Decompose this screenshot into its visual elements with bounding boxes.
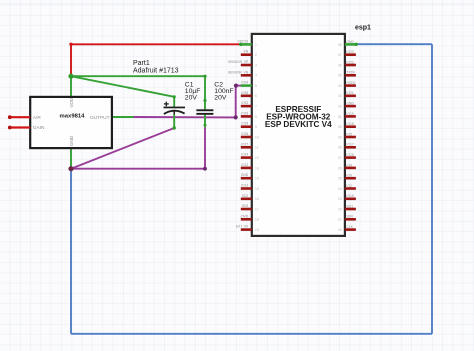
wire green C2 top lead vertical: [204, 76, 206, 109]
svg-text:27: 27: [338, 156, 342, 160]
svg-text:6: 6: [255, 94, 257, 98]
pin left 19 EXT_5V: [236, 225, 259, 232]
svg-text:33: 33: [338, 94, 342, 98]
svg-text:SD2: SD2: [242, 194, 249, 198]
op-amp Part1 max9814 module body: [30, 97, 112, 148]
svg-text:SENSOR_VP: SENSOR_VP: [228, 60, 249, 64]
wire green C1 top lead: [173, 97, 175, 107]
svg-text:23: 23: [338, 197, 342, 201]
svg-text:IO14: IO14: [241, 153, 248, 157]
svg-text:19: 19: [255, 228, 259, 232]
pin right 24 IO2: [338, 184, 356, 191]
pin left 16 SD2: [241, 194, 259, 201]
svg-text:IO34: IO34: [241, 81, 248, 85]
pin right 34 RXD0: [338, 81, 356, 88]
pin GAIN stub: [10, 126, 30, 128]
svg-text:20: 20: [338, 228, 342, 232]
pin A/R stub: [10, 116, 30, 118]
wire purple C2 bottom vertical: [204, 127, 206, 168]
wire blue GND vertical right: [431, 44, 433, 334]
svg-text:GND: GND: [69, 135, 75, 146]
wire green C2 bottom lead: [204, 115, 206, 128]
pin right 22 SD1: [338, 204, 356, 211]
pin left 18 CMD: [241, 214, 259, 221]
capacitor C1: [164, 102, 186, 115]
svg-text:TXD0: TXD0: [346, 71, 355, 75]
pin right 38 GND: [338, 40, 356, 47]
wire green OUTPUT stub: [112, 116, 134, 118]
svg-text:IO16: IO16: [346, 153, 353, 157]
wire purple GND horizontal to below C2: [71, 168, 205, 170]
wire green C1 bottom lead: [173, 115, 175, 128]
pin left 17 SD3: [241, 204, 259, 211]
wire red VDD vertical: [70, 44, 72, 76]
svg-text:18: 18: [255, 218, 259, 222]
svg-text:CLK: CLK: [346, 225, 353, 229]
svg-text:max9814: max9814: [60, 114, 86, 120]
svg-text:VDD: VDD: [69, 97, 75, 108]
wire purple OUTPUT horizontal: [134, 116, 236, 118]
pin left 14 GND: [241, 173, 259, 180]
svg-text:17: 17: [255, 207, 259, 211]
wire blue GND vertical left: [70, 169, 72, 334]
wire purple diagonal C1 bottom to GND node: [71, 128, 174, 169]
svg-text:3: 3: [255, 63, 257, 67]
svg-text:IO19: IO19: [346, 112, 353, 116]
wire purple into IO34 pin: [236, 85, 242, 87]
svg-text:SD1: SD1: [346, 204, 353, 208]
svg-text:IO4: IO4: [346, 163, 352, 167]
svg-text:12: 12: [255, 156, 259, 160]
svg-text:IO12: IO12: [241, 163, 248, 167]
svg-text:38: 38: [338, 43, 342, 47]
wire purple OUTPUT vertical to IO34: [235, 86, 237, 118]
svg-text:IO0: IO0: [346, 174, 352, 178]
svg-text:16: 16: [255, 197, 259, 201]
pin left 3 SENSOR_VP: [228, 60, 257, 67]
node green bendpoint at C2 top: [203, 75, 206, 78]
svg-text:31: 31: [338, 115, 342, 119]
svg-text:OUTPUT: OUTPUT: [90, 115, 110, 121]
svg-text:7: 7: [255, 105, 257, 109]
svg-text:IO21: IO21: [346, 91, 353, 95]
wire red VDD horizontal to VDD33: [71, 43, 241, 45]
svg-text:GND: GND: [346, 102, 354, 106]
svg-text:1: 1: [255, 43, 257, 47]
svg-text:36: 36: [338, 63, 342, 67]
svg-text:13: 13: [255, 166, 259, 170]
svg-text:IO26: IO26: [241, 132, 248, 136]
pin left 6 IO35: [241, 91, 257, 98]
node B GND junction: [68, 166, 73, 171]
pin right 23 IO15: [338, 194, 356, 201]
svg-text:GAIN: GAIN: [33, 125, 45, 131]
svg-text:IO15: IO15: [346, 194, 353, 198]
node green C2 pin junction: [203, 99, 206, 102]
pin left 15 IO13: [241, 184, 259, 191]
svg-text:4: 4: [255, 74, 257, 78]
pin left 1 VDD33: [238, 39, 257, 46]
svg-text:IO33: IO33: [241, 111, 248, 115]
node purple C1 bottom junction: [173, 126, 176, 129]
wire green max9814 GND stub down: [70, 148, 72, 169]
svg-text:26: 26: [338, 166, 342, 170]
svg-text:11: 11: [255, 146, 259, 150]
node A VDD junction: [68, 74, 73, 79]
node green C2 bottom pin end: [204, 124, 207, 127]
pin right 21 SD0: [338, 215, 356, 222]
pin right 20 CLK: [338, 225, 356, 232]
pin left 2 EN: [241, 50, 257, 57]
svg-text:CMD: CMD: [241, 214, 249, 218]
svg-text:IO5: IO5: [346, 132, 352, 136]
svg-text:IO17: IO17: [346, 143, 353, 147]
op-amp U1 esp1 ESP32 DevKitC body: [252, 34, 345, 236]
node red bendpoint top-left: [69, 43, 72, 46]
svg-text:14: 14: [255, 177, 259, 181]
svg-text:20V: 20V: [214, 94, 227, 101]
wire green VDD horizontal to C2: [71, 75, 205, 77]
svg-text:SD0: SD0: [346, 215, 353, 219]
node purple junction at IO34: [234, 84, 238, 88]
svg-text:A/R: A/R: [33, 115, 42, 121]
pin right 29 IO5: [338, 132, 356, 139]
svg-text:IO18: IO18: [346, 122, 353, 126]
wire green VDD node to max9814 VDD pin: [70, 76, 72, 97]
svg-text:28: 28: [338, 146, 342, 150]
svg-text:SD3: SD3: [242, 204, 249, 208]
pin right 28 IO17: [338, 143, 356, 150]
svg-text:Adafruit #1713: Adafruit #1713: [133, 67, 179, 74]
pin right 30 IO18: [338, 122, 356, 129]
svg-text:EXT_5V: EXT_5V: [236, 225, 249, 229]
svg-text:29: 29: [338, 135, 342, 139]
pin left 8 IO33: [241, 111, 257, 118]
svg-text:24: 24: [338, 187, 342, 191]
svg-text:IO22: IO22: [346, 60, 353, 64]
svg-text:37: 37: [338, 53, 342, 57]
pin right 37 IO23: [338, 50, 356, 57]
svg-text:20V: 20V: [185, 94, 198, 101]
svg-text:IO23: IO23: [346, 50, 353, 54]
pin right 33 IO21: [338, 91, 356, 98]
svg-text:IO25: IO25: [241, 122, 248, 126]
wire blue GND bottom horizontal: [71, 333, 432, 335]
svg-text:22: 22: [338, 207, 342, 211]
svg-text:35: 35: [338, 74, 342, 78]
svg-text:21: 21: [338, 218, 342, 222]
pin right 36 IO22: [338, 60, 356, 67]
node green junction ESP GND: [355, 43, 358, 46]
svg-text:32: 32: [338, 105, 342, 109]
svg-text:IO32: IO32: [241, 101, 248, 105]
pin left 13 IO12: [241, 163, 259, 170]
capacitor C2: [196, 109, 213, 115]
svg-text:SENSOR_VN: SENSOR_VN: [228, 70, 249, 74]
pin right 25 IO0: [338, 174, 356, 181]
svg-text:9: 9: [255, 125, 257, 129]
svg-text:IO13: IO13: [241, 184, 248, 188]
svg-text:34: 34: [338, 84, 342, 88]
pin left 12 IO14: [241, 153, 259, 160]
node purple bendpoint below IO33: [234, 115, 238, 119]
svg-text:GND: GND: [346, 40, 354, 44]
pin left 9 IO25: [241, 122, 257, 129]
svg-text:RXD0: RXD0: [346, 81, 355, 85]
node green junction VDD33: [239, 43, 242, 46]
pin right 35 TXD0: [338, 71, 356, 78]
svg-text:ESP DEVKITC V4: ESP DEVKITC V4: [265, 120, 332, 129]
pin right 32 GND: [338, 102, 356, 109]
pin right 27 IO16: [338, 153, 356, 160]
svg-text:30: 30: [338, 125, 342, 129]
svg-text:2: 2: [255, 53, 257, 57]
svg-text:Part1: Part1: [133, 60, 150, 67]
pin left 11 IO27: [241, 142, 259, 149]
pin left 7 IO32: [241, 101, 257, 108]
svg-text:IO35: IO35: [241, 91, 248, 95]
pin left 5 IO34: [241, 81, 257, 88]
node green C1 top junction: [173, 95, 176, 98]
wire green diagonal VDD node to C1 top: [71, 76, 174, 97]
pin right 26 IO4: [338, 163, 356, 170]
pin left 10 IO26: [241, 132, 259, 139]
svg-text:IO2: IO2: [346, 184, 352, 188]
svg-text:10: 10: [255, 135, 259, 139]
wire blue GND top horizontal to ESP GND: [356, 43, 432, 45]
pin right 31 IO19: [338, 112, 356, 119]
svg-text:5: 5: [255, 84, 257, 88]
svg-text:EN: EN: [244, 50, 249, 54]
svg-text:GND: GND: [241, 173, 249, 177]
svg-text:8: 8: [255, 115, 257, 119]
svg-text:15: 15: [255, 187, 259, 191]
svg-text:esp1: esp1: [355, 24, 371, 31]
pin left 4 SENSOR_VN: [228, 70, 257, 77]
svg-text:IO27: IO27: [241, 142, 248, 146]
node purple bendpoint below C2: [203, 167, 207, 171]
svg-text:VDD33: VDD33: [238, 39, 249, 43]
svg-text:25: 25: [338, 177, 342, 181]
